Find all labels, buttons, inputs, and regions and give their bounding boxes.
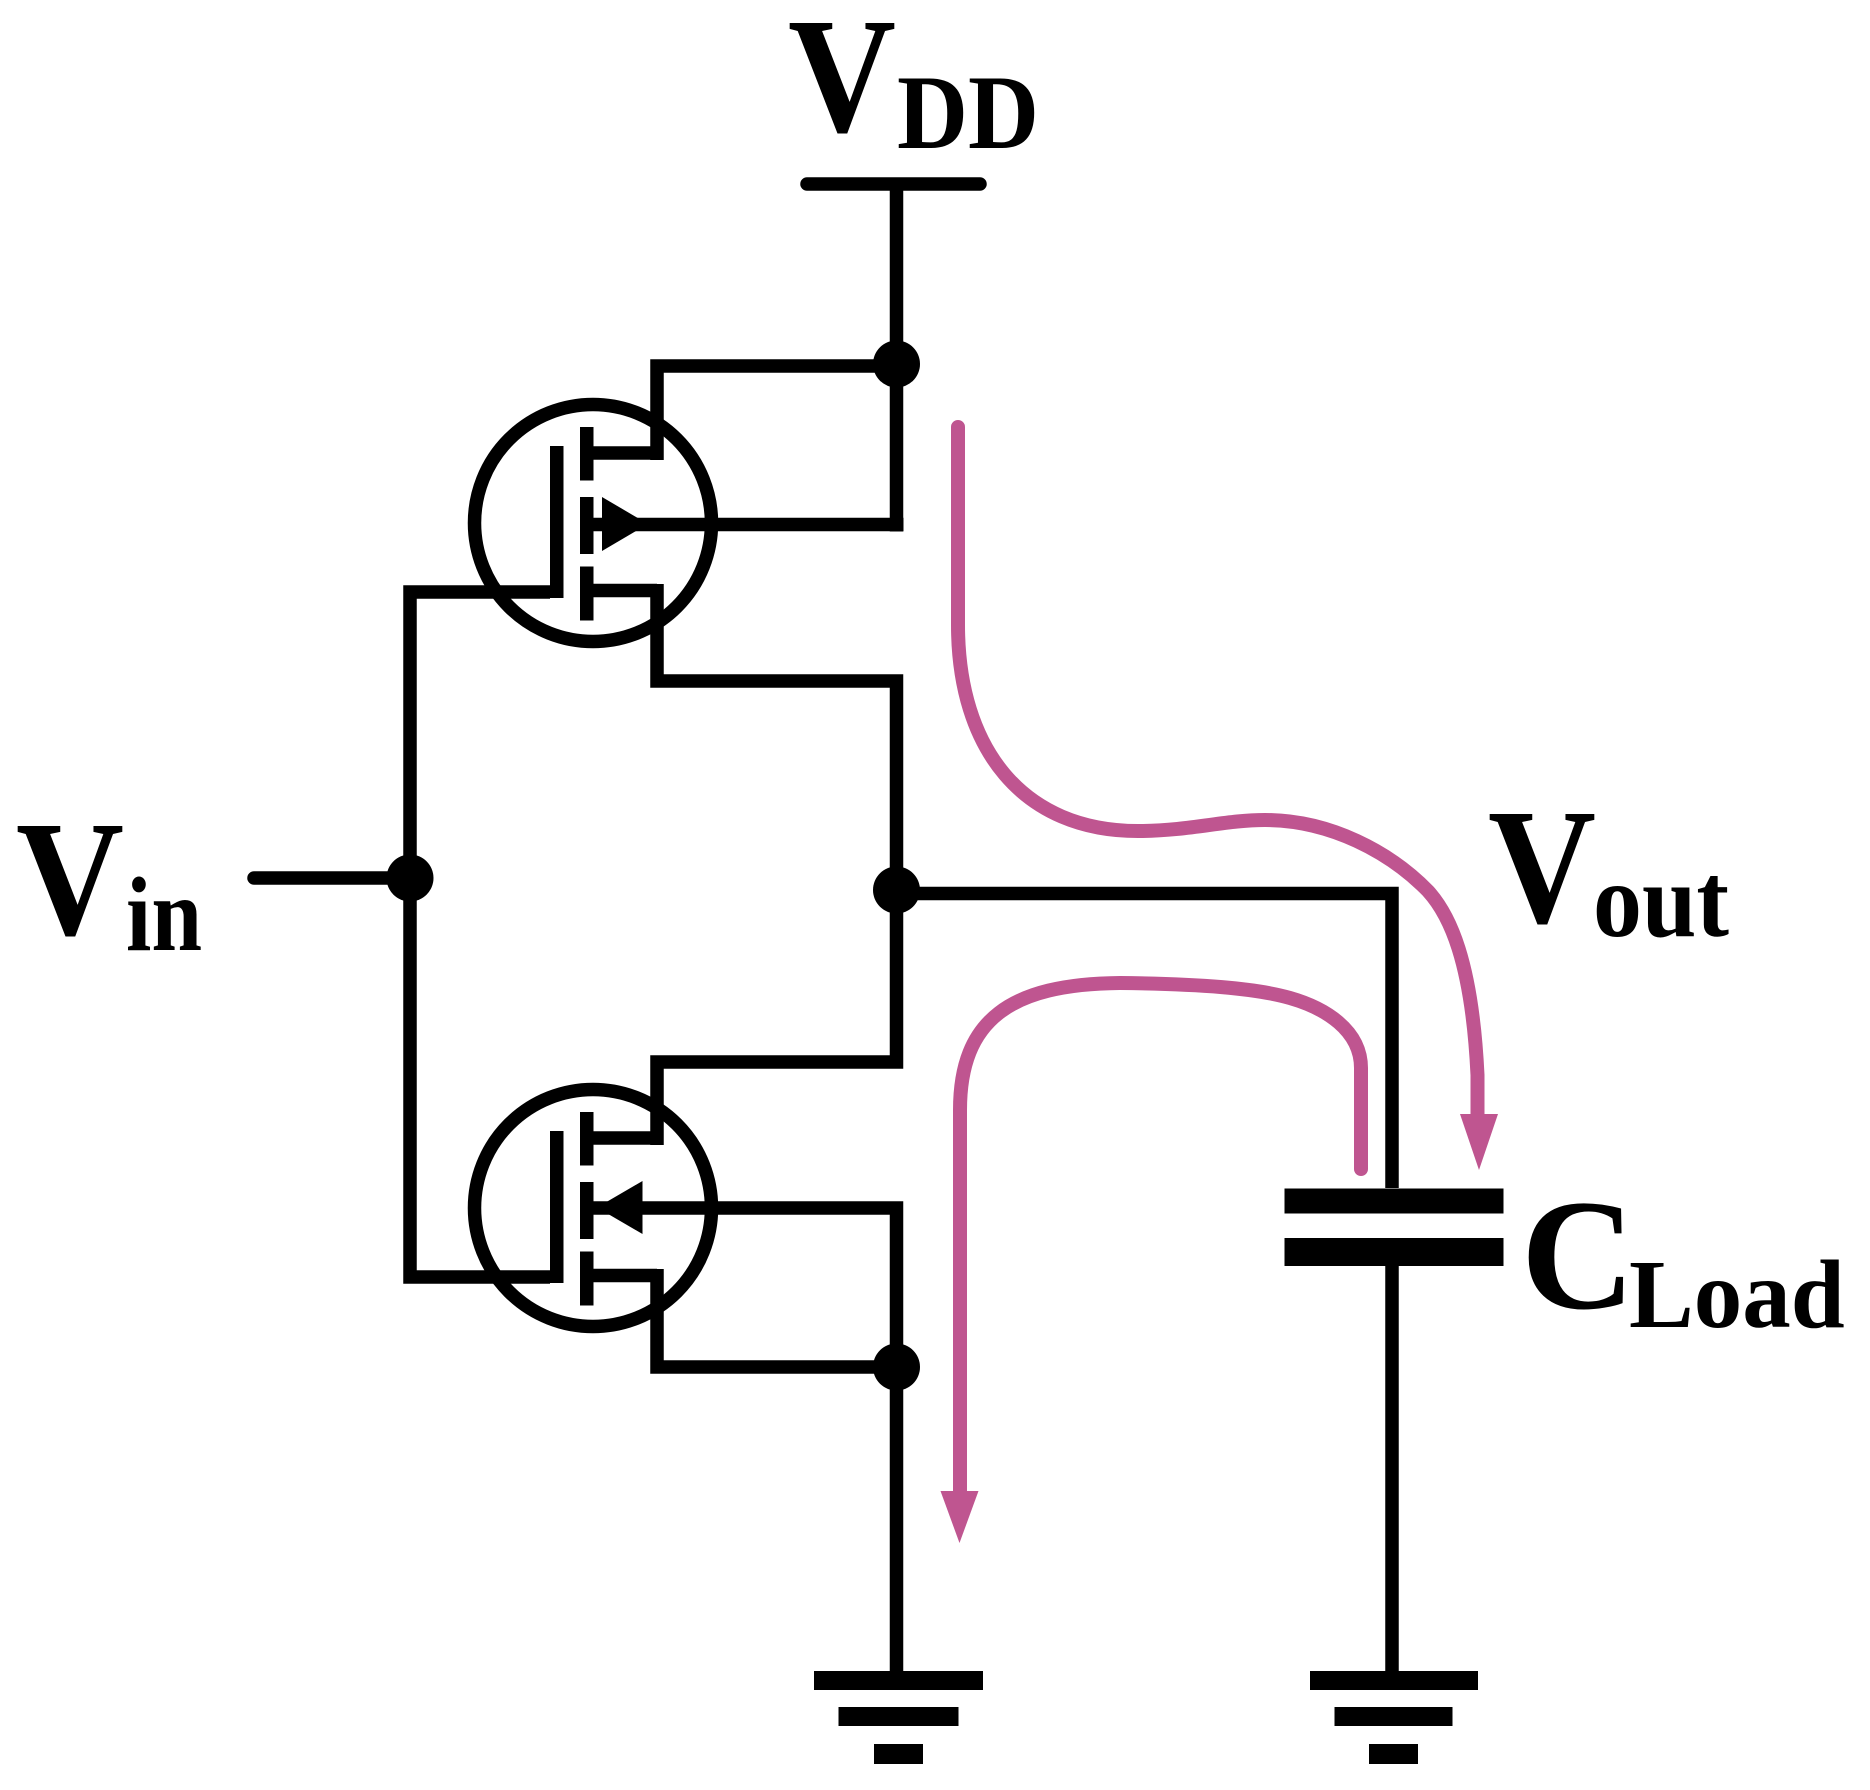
M2 channel segment top [580,1112,594,1166]
ground GND2 bar 1 [1310,1671,1478,1690]
svg-text:V: V [788,0,896,167]
M1 channel segment bottom [580,567,594,621]
transistor M1 PMOS body circle [475,405,712,642]
node NMOS source junction [873,1344,920,1391]
current arrow: charge path (VDD through PMOS to C_Load) [958,427,1498,1170]
label VDD [788,0,1039,171]
M2 bulk wire [587,1208,897,1367]
node Vout junction [873,867,920,914]
svg-text:Load: Load [1629,1241,1845,1348]
M2 channel segment bottom [580,1252,594,1306]
M2 drain contact [587,1131,657,1145]
M1 drain contact [587,584,657,598]
wire PMOS source to VDD node [657,366,897,460]
wire Vin stub [254,871,410,885]
M1 channel segment top [580,427,594,481]
label C_Load [1521,1168,1845,1348]
node Vin junction [387,855,434,902]
svg-text:C: C [1521,1168,1635,1343]
label Vout [1488,775,1729,959]
M1 drain wire down to Vout node [657,584,897,890]
svg-text:V: V [1488,775,1596,958]
wire capacitor to ground [1385,1251,1399,1680]
M1 bulk wire [587,518,904,532]
ground GND2 bar 3 [1369,1744,1418,1764]
wire NMOS source to ground [890,1367,904,1680]
ground GND1 bar 3 [874,1744,923,1764]
label Vin [16,787,202,973]
power rail VDD [807,177,980,191]
M1 bulk arrow (PMOS, points right) [602,497,648,551]
capacitor C_Load bottom plate [1285,1238,1504,1266]
capacitor C_Load top plate [1285,1189,1504,1214]
M2 gate bar [550,1131,564,1283]
wire Vin bus to both gates [410,592,550,1277]
M2 channel segment middle [580,1182,594,1239]
svg-text:DD: DD [897,54,1039,171]
ground GND1 bar 1 [814,1671,983,1690]
ground GND1 bar 2 [839,1707,959,1726]
wire Vout node down to NMOS drain [657,890,897,1145]
wire Vout to capacitor [897,894,1393,1189]
svg-text:out: out [1593,842,1729,959]
current arrow: discharge path (C_Load through NMOS to ground) [941,983,1362,1543]
M2 bulk arrow (NMOS, points left) [597,1181,643,1234]
M1 gate bar [550,446,564,598]
transistor M2 NMOS body circle [475,1090,712,1327]
M1 channel segment middle [580,497,594,554]
M2 source contact [587,1269,657,1283]
svg-text:in: in [126,856,202,973]
ground GND2 bar 2 [1335,1707,1453,1726]
svg-text:V: V [16,787,124,970]
wire VDD rail down to PMOS bulk [890,184,904,532]
node VDD junction [873,341,920,388]
M2 source wire to ground node [657,1269,897,1367]
M1 source contact [587,446,657,460]
